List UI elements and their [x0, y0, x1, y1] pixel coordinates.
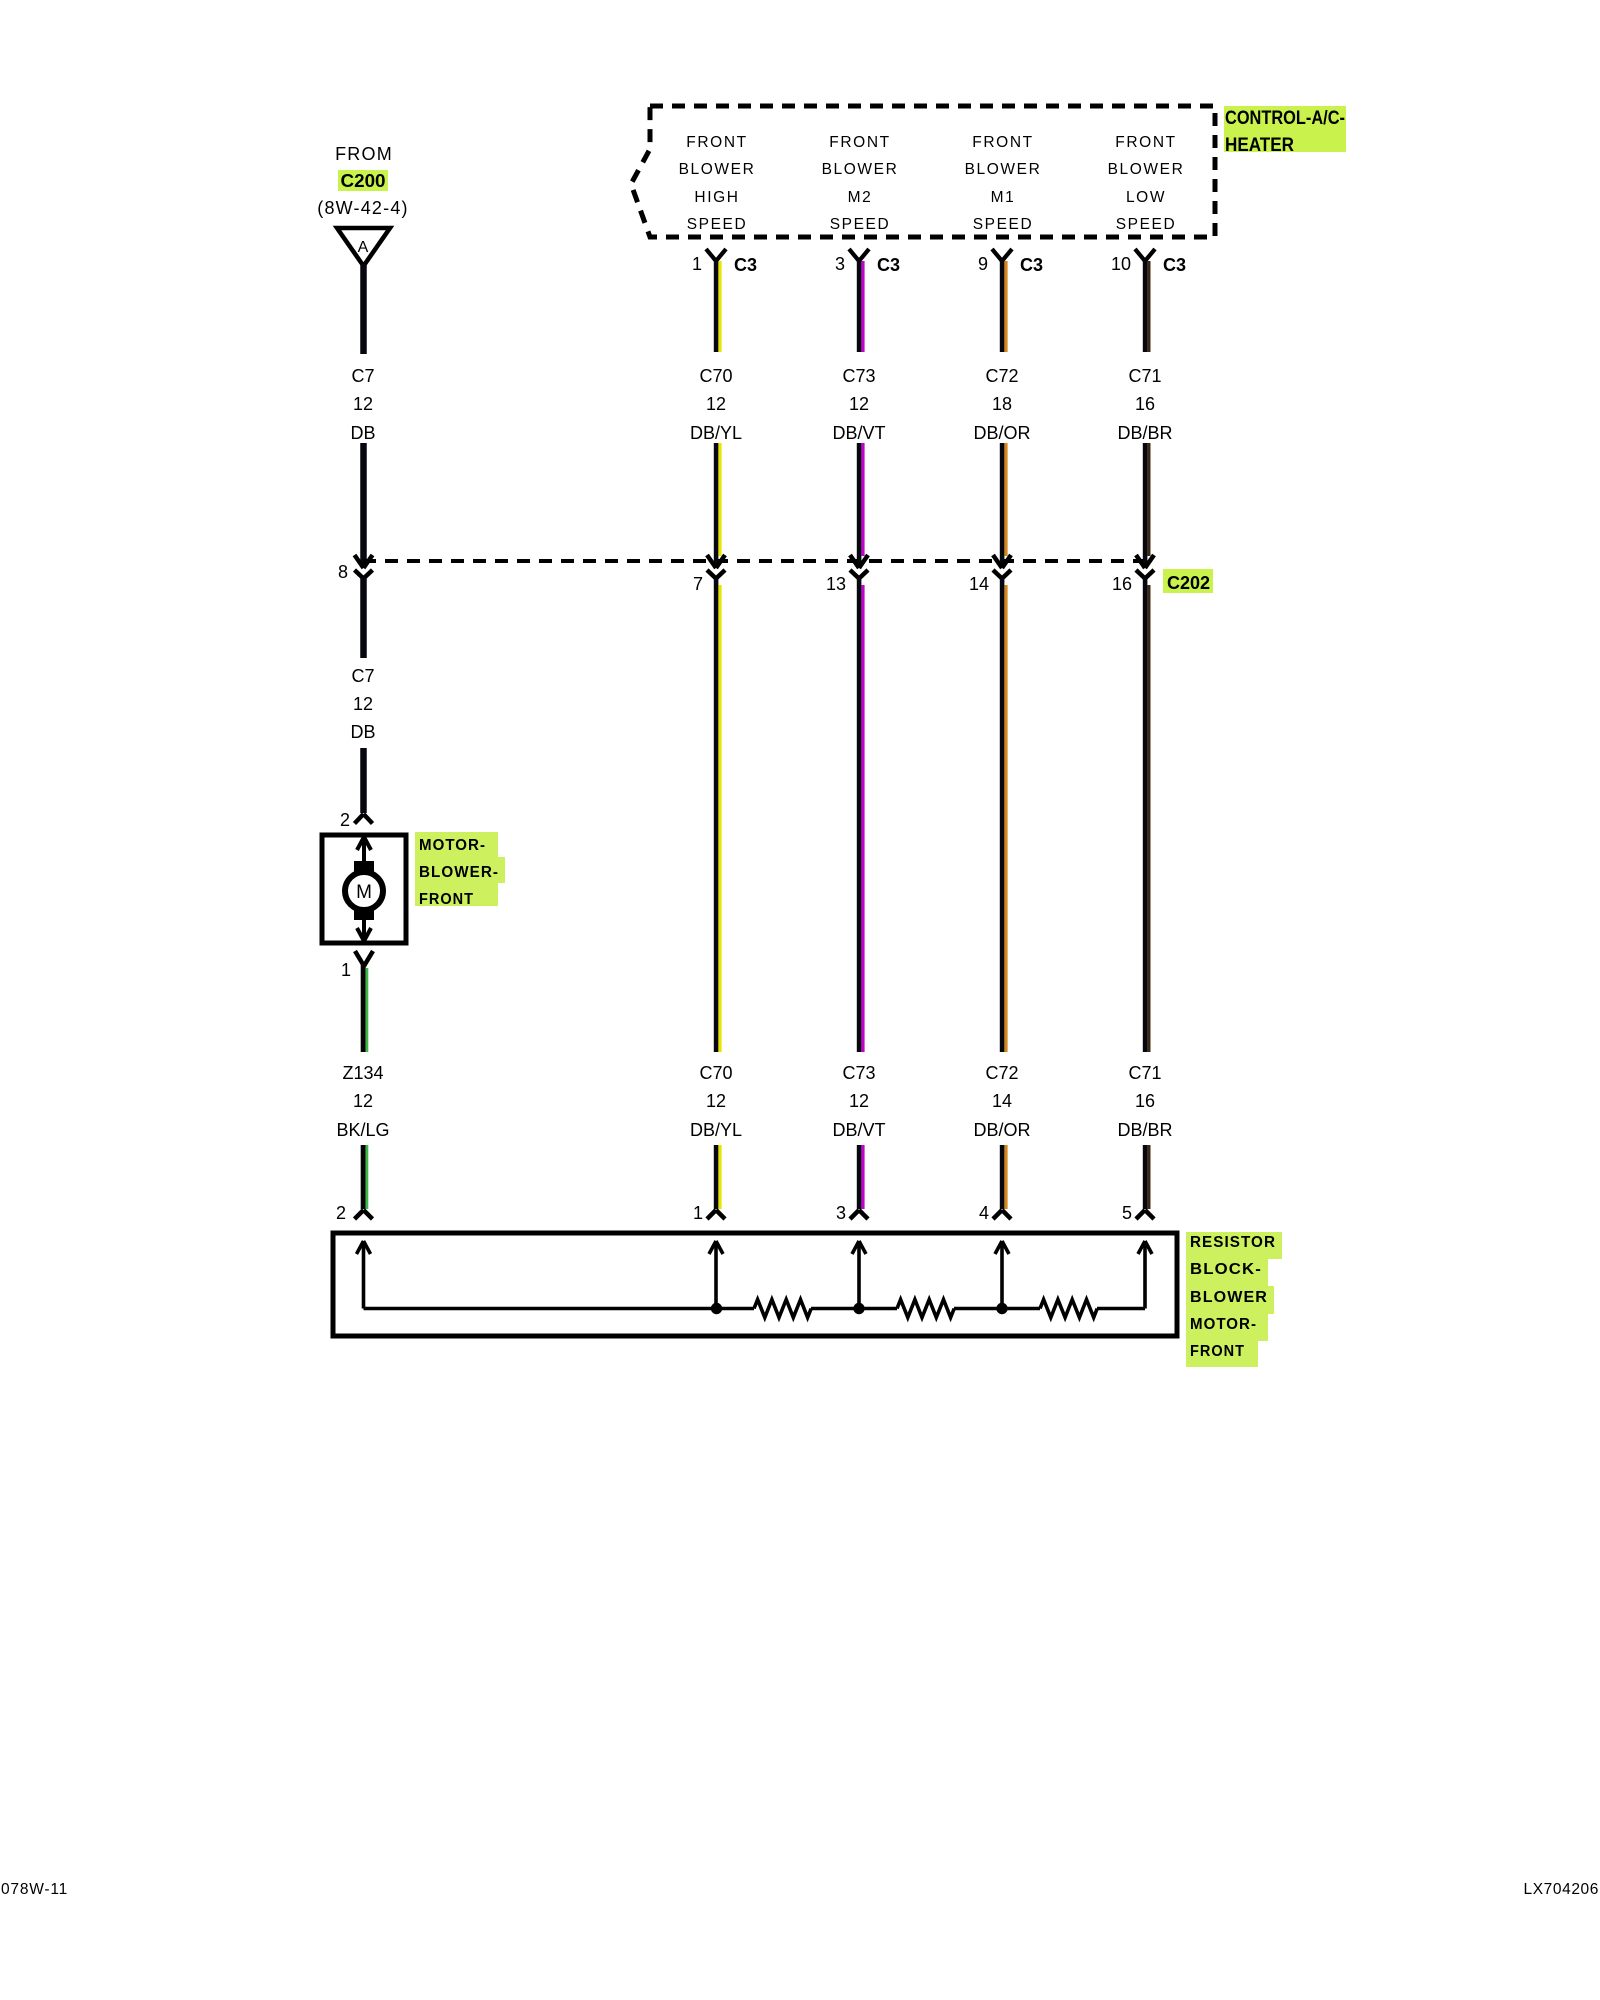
- svg-text:12: 12: [353, 1091, 373, 1111]
- resistor block internal lead pin 3 with up arrow: [852, 1241, 866, 1309]
- svg-text:DB/OR: DB/OR: [973, 1120, 1030, 1140]
- connector chevron pin 1 at resistor block: [693, 1203, 725, 1223]
- svg-text:C7: C7: [351, 666, 374, 686]
- svg-text:12: 12: [706, 1091, 726, 1111]
- svg-text:HEATER: HEATER: [1225, 135, 1294, 156]
- pin function label FRONT BLOWER LOW SPEED: [1108, 134, 1185, 233]
- svg-text:HIGH: HIGH: [694, 189, 739, 206]
- svg-text:DB: DB: [350, 423, 375, 443]
- in-line connector arrow pin 14: [969, 555, 1011, 594]
- pin function label FRONT BLOWER M2 SPEED: [822, 134, 899, 233]
- wire C70 DB/YL into resistor block: [716, 1145, 720, 1209]
- in-line connector arrow pin 8: [338, 555, 373, 582]
- svg-text:M2: M2: [848, 189, 873, 206]
- connector chevron pin 3 at resistor block: [836, 1203, 868, 1223]
- wire C73 DB/VT segment to C202: [859, 443, 863, 566]
- svg-text:FROM: FROM: [335, 144, 393, 164]
- svg-text:SPEED: SPEED: [687, 216, 748, 233]
- junction dashed line C202: [363, 559, 1146, 563]
- svg-text:C72: C72: [985, 366, 1018, 386]
- svg-text:MOTOR-: MOTOR-: [1190, 1316, 1257, 1333]
- connector chevron pin 2 at resistor block: [336, 1203, 373, 1223]
- svg-text:FRONT: FRONT: [972, 134, 1033, 151]
- pin function label FRONT BLOWER HIGH SPEED: [679, 134, 756, 233]
- motor internal lead with up arrow: [357, 837, 371, 862]
- svg-text:DB/VT: DB/VT: [832, 423, 885, 443]
- wire label C7 12 DB (upper): [350, 366, 375, 443]
- svg-text:DB/BR: DB/BR: [1117, 423, 1172, 443]
- resistor element R1 (between pins 1 and 3): [754, 1300, 811, 1318]
- wire C71 DB/BR long segment: [1145, 578, 1149, 1052]
- svg-text:14: 14: [969, 574, 989, 594]
- resistor element R2 (between pins 3 and 4): [897, 1300, 954, 1318]
- svg-text:M1: M1: [991, 189, 1016, 206]
- wire C73 DB/VT upper segment: [859, 259, 863, 352]
- in-line connector arrow pin 7: [693, 555, 725, 594]
- svg-text:12: 12: [849, 394, 869, 414]
- svg-text:FRONT: FRONT: [1115, 134, 1176, 151]
- component label CONTROL-A/C-HEATER (highlighted): [1224, 106, 1346, 156]
- svg-text:12: 12: [849, 1091, 869, 1111]
- svg-text:C72: C72: [985, 1063, 1018, 1083]
- svg-text:C71: C71: [1128, 366, 1161, 386]
- svg-text:C202: C202: [1167, 573, 1210, 593]
- svg-text:SPEED: SPEED: [973, 216, 1034, 233]
- wire C7 DB segment to C202: [360, 443, 367, 566]
- wire C7 DB below C202: [360, 578, 367, 658]
- wire label C73 12 DB/VT (upper): [832, 366, 885, 443]
- svg-text:C200: C200: [341, 171, 386, 191]
- svg-text:14: 14: [992, 1091, 1012, 1111]
- svg-text:12: 12: [353, 694, 373, 714]
- connector Y pin 10 C3: [1111, 249, 1186, 275]
- wire Z134 BK/LG into resistor block: [363, 1145, 367, 1209]
- resistor block box outline: [333, 1233, 1177, 1336]
- connector chevron pin 2 at motor: [340, 810, 373, 830]
- connector Y pin 1 below motor: [341, 951, 373, 980]
- wire C71 DB/BR into resistor block: [1145, 1145, 1149, 1209]
- svg-text:16: 16: [1135, 394, 1155, 414]
- pin function label FRONT BLOWER M1 SPEED: [965, 134, 1042, 233]
- wire Z134 BK/LG segment: [363, 964, 367, 1052]
- internal bus wire segments: [364, 1307, 1146, 1311]
- svg-text:1: 1: [693, 1203, 703, 1223]
- wire C72 DB/OR into resistor block: [1002, 1145, 1006, 1209]
- svg-text:BLOWER: BLOWER: [679, 161, 756, 178]
- svg-text:DB/OR: DB/OR: [973, 423, 1030, 443]
- motor M1 box outline: [322, 835, 406, 943]
- svg-text:DB/YL: DB/YL: [690, 423, 742, 443]
- svg-text:FRONT: FRONT: [829, 134, 890, 151]
- svg-text:DB/BR: DB/BR: [1117, 1120, 1172, 1140]
- svg-text:13: 13: [826, 574, 846, 594]
- svg-text:C3: C3: [734, 255, 757, 275]
- component label RESISTOR BLOCK-BLOWER MOTOR-FRONT (highlighted): [1186, 1232, 1282, 1367]
- svg-text:FRONT: FRONT: [419, 891, 474, 908]
- resistor block internal lead pin 4 with up arrow: [995, 1241, 1009, 1309]
- svg-text:078W-11: 078W-11: [1, 1881, 68, 1898]
- svg-text:FRONT: FRONT: [686, 134, 747, 151]
- wire label C73 12 DB/VT (lower): [832, 1063, 885, 1140]
- wire C70 DB/YL upper segment: [716, 259, 720, 352]
- component label MOTOR-BLOWER-FRONT (highlighted): [415, 832, 505, 908]
- svg-text:C3: C3: [877, 255, 900, 275]
- svg-text:Z134: Z134: [342, 1063, 383, 1083]
- in-line connector arrow pin 16 and label C202: [1112, 555, 1154, 594]
- motor internal lead with down arrow: [357, 920, 371, 941]
- wire C73 DB/VT long segment: [859, 578, 863, 1052]
- svg-text:C3: C3: [1020, 255, 1043, 275]
- svg-text:C71: C71: [1128, 1063, 1161, 1083]
- svg-text:1: 1: [692, 254, 702, 274]
- svg-text:5: 5: [1122, 1203, 1132, 1223]
- wire label C71 16 DB/BR (lower): [1117, 1063, 1172, 1140]
- connector chevron pin 4 at resistor block: [979, 1203, 1011, 1223]
- wire label C7 12 DB (lower): [350, 666, 375, 742]
- connector Y pin 9 C3: [978, 249, 1043, 275]
- svg-text:3: 3: [835, 254, 845, 274]
- svg-text:10: 10: [1111, 254, 1131, 274]
- motor brush (top): [354, 861, 374, 874]
- svg-text:A: A: [358, 239, 369, 256]
- svg-text:BLOWER: BLOWER: [1190, 1289, 1268, 1306]
- svg-text:DB/YL: DB/YL: [690, 1120, 742, 1140]
- svg-text:C3: C3: [1163, 255, 1186, 275]
- svg-text:SPEED: SPEED: [1116, 216, 1177, 233]
- svg-text:7: 7: [693, 574, 703, 594]
- svg-text:BK/LG: BK/LG: [336, 1120, 389, 1140]
- wire label Z134 12 BK/LG: [336, 1063, 389, 1140]
- svg-text:DB/VT: DB/VT: [832, 1120, 885, 1140]
- svg-text:4: 4: [979, 1203, 989, 1223]
- wire C71 DB/BR segment to C202: [1145, 443, 1149, 566]
- resistor block internal lead pin 1 with up arrow: [709, 1241, 723, 1309]
- wire label C72 18 DB/OR (upper): [973, 366, 1030, 443]
- connector Y pin 1 C3: [692, 249, 757, 275]
- connector Y pin 3 C3: [835, 249, 900, 275]
- wire C71 DB/BR upper segment: [1145, 259, 1149, 352]
- resistor block internal lead pin 5 with up arrow: [1138, 1241, 1152, 1309]
- connector chevron pin 5 at resistor block: [1122, 1203, 1154, 1223]
- svg-text:LOW: LOW: [1126, 189, 1166, 206]
- svg-text:BLOWER: BLOWER: [965, 161, 1042, 178]
- wire label C71 16 DB/BR (upper): [1117, 366, 1172, 443]
- wire C72 DB/OR segment to C202: [1002, 443, 1006, 566]
- svg-text:16: 16: [1112, 574, 1132, 594]
- motor brush (bottom): [354, 907, 374, 920]
- svg-text:BLOWER: BLOWER: [822, 161, 899, 178]
- svg-text:2: 2: [336, 1203, 346, 1223]
- svg-text:C7: C7: [351, 366, 374, 386]
- wire C70 DB/YL long segment: [716, 578, 720, 1052]
- svg-text:12: 12: [706, 394, 726, 414]
- svg-text:LX704206: LX704206: [1524, 1881, 1599, 1898]
- wire C7 DB upper segment: [360, 264, 367, 354]
- wire C7 DB into motor: [360, 748, 367, 813]
- svg-text:CONTROL-A/C-: CONTROL-A/C-: [1225, 108, 1345, 129]
- wire C72 DB/OR upper segment: [1002, 259, 1006, 352]
- control module dashed outline box: [631, 106, 1215, 237]
- svg-text:MOTOR-: MOTOR-: [419, 837, 486, 854]
- svg-text:3: 3: [836, 1203, 846, 1223]
- wire C73 DB/VT into resistor block: [859, 1145, 863, 1209]
- svg-text:M: M: [356, 882, 372, 903]
- svg-text:2: 2: [340, 810, 350, 830]
- svg-text:9: 9: [978, 254, 988, 274]
- wire C72 DB/OR long segment: [1002, 578, 1006, 1052]
- svg-text:RESISTOR: RESISTOR: [1190, 1234, 1276, 1251]
- svg-text:8: 8: [338, 562, 348, 582]
- svg-text:12: 12: [353, 394, 373, 414]
- svg-text:C70: C70: [699, 1063, 732, 1083]
- in-line connector arrow pin 13: [826, 555, 868, 594]
- svg-text:BLOWER-: BLOWER-: [419, 864, 499, 881]
- svg-text:DB: DB: [350, 722, 375, 742]
- svg-text:FRONT: FRONT: [1190, 1343, 1245, 1360]
- resistor block internal lead pin 2 with up arrow: [357, 1241, 371, 1309]
- connector label C200 (highlighted): [338, 170, 388, 191]
- wire label C72 14 DB/OR (lower): [973, 1063, 1030, 1140]
- svg-text:C73: C73: [842, 1063, 875, 1083]
- motor armature circle M: [345, 872, 383, 910]
- svg-text:SPEED: SPEED: [830, 216, 891, 233]
- off-page connector A (triangle): [337, 228, 390, 266]
- junction dot at pin 3 bus: [853, 1303, 864, 1314]
- svg-text:18: 18: [992, 394, 1012, 414]
- junction dot at pin 1 bus: [711, 1303, 722, 1314]
- svg-text:BLOCK-: BLOCK-: [1190, 1261, 1262, 1278]
- wire label C70 12 DB/YL (lower): [690, 1063, 742, 1140]
- svg-text:BLOWER: BLOWER: [1108, 161, 1185, 178]
- connector label C202 (highlighted): [1163, 569, 1213, 593]
- svg-text:16: 16: [1135, 1091, 1155, 1111]
- svg-text:(8W-42-4): (8W-42-4): [317, 198, 408, 218]
- resistor element R3 (between pins 4 and 5): [1040, 1300, 1097, 1318]
- wire label C70 12 DB/YL (upper): [690, 366, 742, 443]
- svg-text:C70: C70: [699, 366, 732, 386]
- svg-text:C73: C73: [842, 366, 875, 386]
- svg-text:1: 1: [341, 960, 351, 980]
- junction dot at pin 4 bus: [996, 1303, 1007, 1314]
- wire C70 DB/YL segment to C202: [716, 443, 720, 566]
